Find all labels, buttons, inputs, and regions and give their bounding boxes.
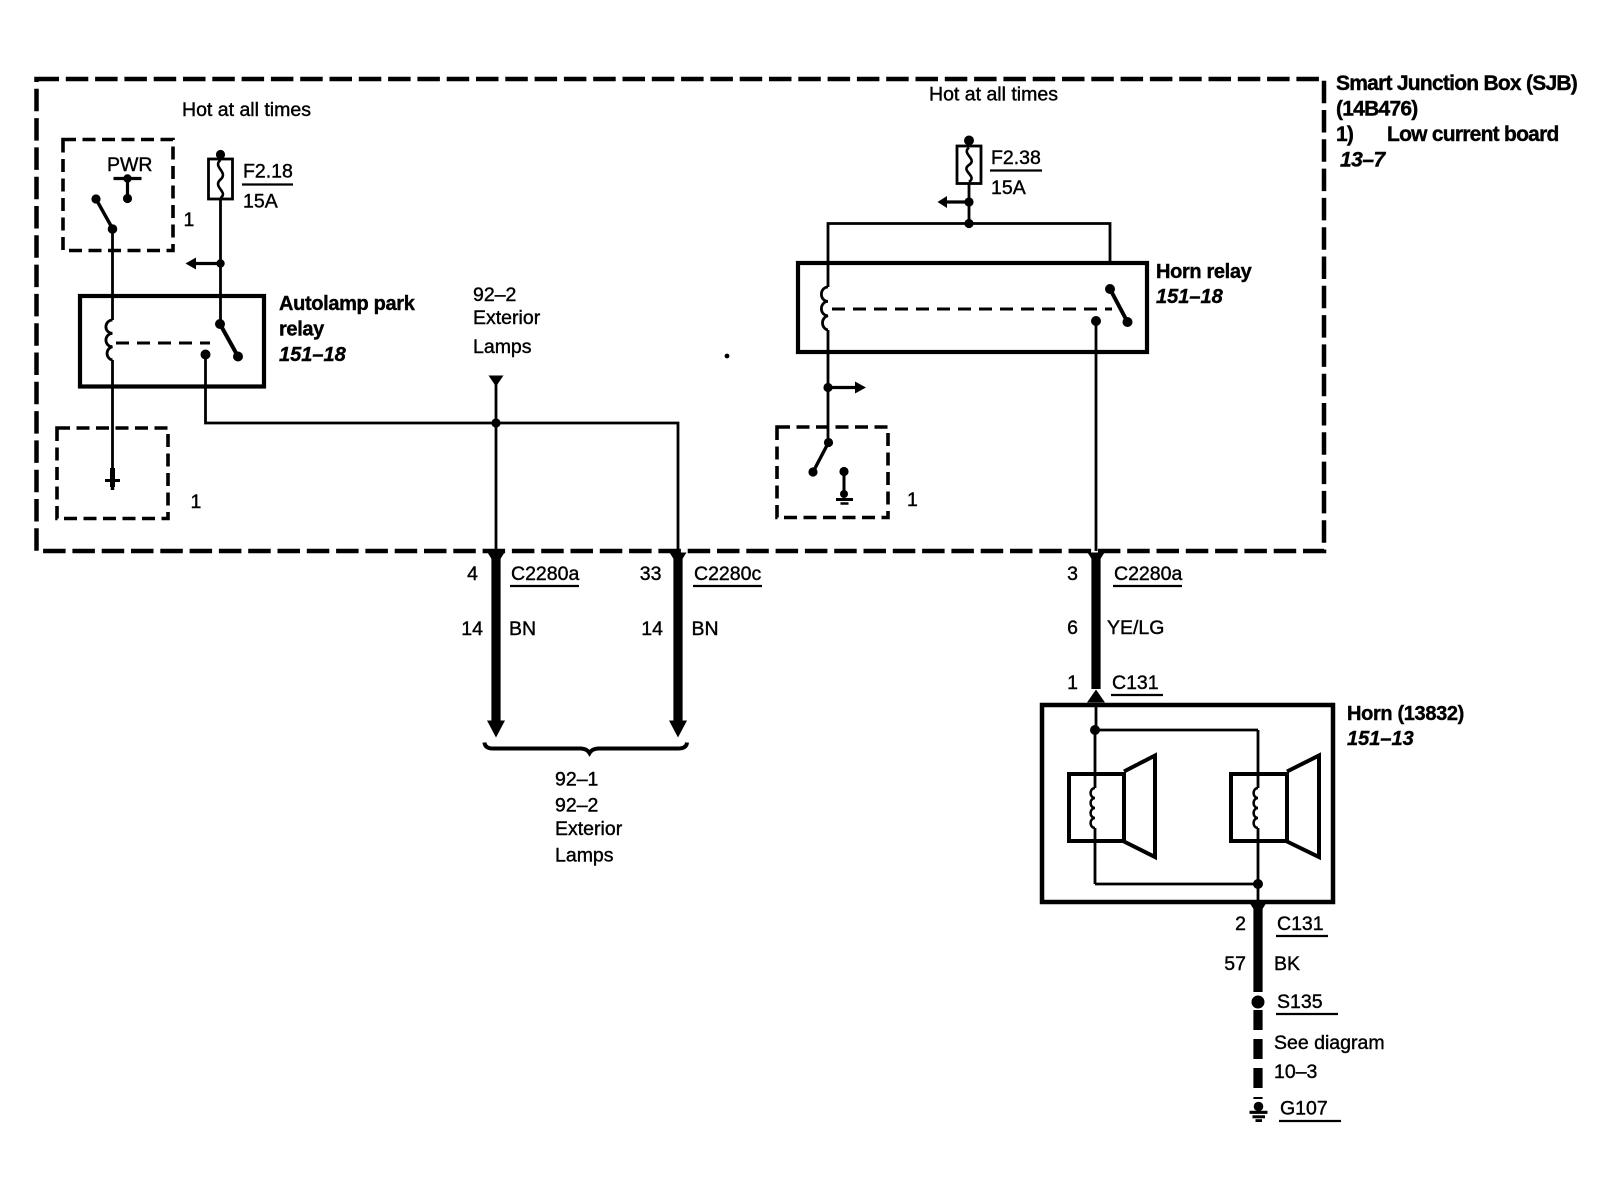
fuse F2.18 — [209, 150, 233, 199]
label wire 6 YE/LG — [1067, 617, 1164, 639]
connector arrow C2280a pin 4 — [488, 553, 505, 567]
label pin 1 C131 — [1067, 672, 1158, 694]
horn relay switch — [1091, 284, 1133, 327]
PWR switch — [91, 194, 117, 233]
svg-text:Autolamp park: Autolamp park — [279, 293, 416, 315]
label 92-2 Exterior Lamps (upper) — [473, 284, 541, 358]
svg-text:92–2: 92–2 — [473, 284, 516, 306]
wire fuse F2.18 to relay switch — [219, 199, 222, 324]
svg-text:BN: BN — [692, 618, 719, 640]
label pin 4 C2280a — [467, 563, 579, 585]
svg-text:PWR: PWR — [107, 154, 153, 176]
relay: Autolamp park relay box — [80, 296, 264, 387]
svg-text:1: 1 — [1067, 672, 1078, 694]
svg-text:2: 2 — [1235, 913, 1246, 935]
svg-text:See diagram: See diagram — [1274, 1032, 1385, 1054]
svg-text:15A: 15A — [991, 177, 1026, 199]
svg-text:151–18: 151–18 — [279, 344, 347, 366]
svg-text:1: 1 — [907, 489, 918, 511]
svg-text:92–1: 92–1 — [555, 769, 598, 791]
brace under BN wires — [485, 743, 688, 754]
wire horn return out of box — [1257, 884, 1260, 903]
svg-text:13–7: 13–7 — [1340, 149, 1387, 172]
svg-text:Low current board: Low current board — [1387, 123, 1559, 146]
relay: Horn relay box — [798, 263, 1147, 352]
label wire gauge 14 BN (right) — [641, 618, 718, 640]
svg-text:Hot at all times: Hot at all times — [182, 99, 311, 121]
arrow end of left BN wire — [487, 721, 505, 738]
svg-text:F2.38: F2.38 — [991, 147, 1041, 169]
coil left horn — [1091, 788, 1095, 828]
coil right horn — [1254, 788, 1258, 828]
horn relay coil — [821, 287, 828, 330]
svg-text:57: 57 — [1224, 953, 1246, 975]
svg-text:Lamps: Lamps — [555, 845, 614, 867]
label pin 3 C2280a — [1067, 563, 1182, 585]
connector arrow C131 pin 2 — [1250, 904, 1266, 917]
wire PWR switch to relay coil — [111, 229, 114, 320]
arrow from exterior lamps label into wire — [489, 376, 504, 387]
wire fuse F2.38 to bus — [968, 184, 971, 224]
wire left horn to bottom link — [1094, 828, 1097, 884]
underline C2280c — [693, 585, 762, 587]
svg-text:Horn (13832): Horn (13832) — [1347, 703, 1464, 725]
label wire 57 BK — [1224, 953, 1300, 975]
ground symbol in horn switch box — [836, 467, 853, 504]
svg-text:Lamps: Lamps — [473, 336, 532, 358]
wire exterior lamps feed — [495, 382, 498, 551]
label F2.18 / 15A — [243, 161, 293, 213]
connector dashed box horn switch — [777, 427, 888, 518]
connector dashed box lower left — [57, 428, 168, 519]
autolamp relay switch — [201, 319, 244, 362]
svg-text:Exterior: Exterior — [473, 307, 541, 329]
svg-text:C2280a: C2280a — [511, 563, 579, 585]
underline C2280a — [510, 585, 579, 587]
SJB title text block — [1336, 72, 1577, 172]
svg-text:G107: G107 — [1280, 1098, 1328, 1120]
arrow end of right BN wire — [669, 721, 687, 738]
underline S135 — [1276, 1013, 1338, 1015]
node horn feed junction — [1090, 725, 1100, 735]
wire coil to lower box terminal — [111, 360, 114, 470]
label Autolamp park relay 151-18 — [279, 293, 416, 366]
svg-text:Exterior: Exterior — [555, 818, 623, 840]
label F2.38 / 15A — [991, 147, 1041, 199]
wire relay output down and across to exterior lamps feed — [206, 355, 679, 552]
svg-text:3: 3 — [1067, 563, 1078, 585]
underline C131 (bottom) — [1276, 935, 1328, 937]
svg-text:151–18: 151–18 — [1156, 286, 1224, 308]
svg-text:92–2: 92–2 — [555, 795, 598, 817]
svg-text:15A: 15A — [243, 191, 278, 213]
svg-text:Hot at all times: Hot at all times — [929, 84, 1058, 106]
label 92-1 92-2 Exterior Lamps (lower) — [555, 769, 623, 867]
arrow into horn connector C131 — [1087, 690, 1105, 703]
svg-text:10–3: 10–3 — [1274, 1061, 1317, 1083]
svg-text:C2280a: C2280a — [1114, 563, 1182, 585]
autolamp relay dashed actuating link — [116, 342, 210, 345]
wire thick BN conductor (left) — [491, 553, 500, 722]
wire dashed BK continuation — [1253, 1010, 1262, 1099]
svg-text:BN: BN — [509, 618, 536, 640]
svg-text:1: 1 — [191, 491, 202, 513]
wire right horn to bottom link — [1257, 828, 1260, 884]
svg-text:C2280c: C2280c — [694, 563, 761, 585]
label pin 33 C2280c — [640, 563, 762, 585]
autolamp relay coil — [106, 320, 113, 360]
underline F2.38 — [990, 169, 1042, 171]
arrow tap right on horn switch feed — [823, 382, 866, 394]
splice S135 — [1252, 996, 1265, 1009]
svg-text:S135: S135 — [1277, 991, 1323, 1013]
wire horn bottom link — [1095, 883, 1258, 886]
svg-text:4: 4 — [467, 563, 478, 585]
horn button switch — [808, 438, 833, 477]
underline G107 — [1279, 1120, 1341, 1122]
svg-text:F2.18: F2.18 — [243, 161, 293, 183]
node horn return junction — [1253, 879, 1263, 889]
svg-text:BK: BK — [1274, 953, 1300, 975]
label pin 2 C131 — [1235, 913, 1323, 935]
Smart Junction Box SJB dashed enclosure — [37, 79, 1325, 551]
wire horn top link — [1095, 729, 1258, 732]
wire into horn box — [1095, 705, 1098, 730]
underline C131 — [1111, 694, 1163, 696]
horn relay dashed actuating link — [832, 308, 1112, 311]
arrow tap left of fuse wire — [186, 258, 225, 270]
svg-text:14: 14 — [461, 618, 483, 640]
svg-text:(14B476): (14B476) — [1336, 98, 1418, 121]
wire bus above horn relay — [828, 224, 1110, 264]
svg-text:151–13: 151–13 — [1347, 728, 1414, 750]
svg-text:C131: C131 — [1112, 672, 1159, 694]
wire right horn drop — [1257, 730, 1260, 788]
wire thick BK conductor — [1253, 904, 1262, 992]
connector arrow C2280c pin 33 — [670, 553, 687, 567]
connector PWR dashed box — [63, 140, 173, 251]
label See diagram 10-3 — [1274, 1032, 1385, 1083]
svg-text:Horn relay: Horn relay — [1156, 261, 1253, 283]
underline F2.18 — [242, 183, 293, 185]
fuse F2.38 — [957, 136, 981, 184]
svg-text:6: 6 — [1067, 617, 1078, 639]
Horn component box — [1042, 705, 1333, 902]
svg-text:C131: C131 — [1277, 913, 1324, 935]
svg-text:relay: relay — [279, 319, 325, 341]
label wire gauge 14 BN (left) — [461, 618, 536, 640]
label Horn relay 151-18 — [1156, 261, 1253, 308]
label Horn (13832) 151-13 — [1347, 703, 1464, 750]
ground G107 — [1250, 1102, 1268, 1121]
svg-text:YE/LG: YE/LG — [1107, 617, 1164, 639]
wire thick BN conductor (right) — [673, 553, 682, 722]
speaker symbol right horn — [1231, 756, 1319, 858]
svg-text:1: 1 — [184, 209, 195, 231]
wire coil through relay bottom — [827, 263, 830, 443]
wire left horn drop — [1094, 730, 1097, 788]
node bus junction — [964, 219, 973, 228]
svg-text:33: 33 — [640, 563, 662, 585]
node junction on lamps wire — [491, 418, 500, 427]
arrow tap left of F2.38 wire — [938, 196, 974, 208]
wire thick YE/LG conductor — [1091, 553, 1100, 689]
speck artifact — [725, 354, 730, 359]
svg-text:1): 1) — [1336, 123, 1353, 146]
svg-text:Smart Junction Box (SJB): Smart Junction Box (SJB) — [1336, 72, 1577, 95]
PWR power terminal symbol — [114, 174, 142, 203]
terminal pin symbol in lower left box — [105, 468, 120, 490]
speaker symbol left horn — [1069, 756, 1155, 858]
svg-text:14: 14 — [641, 618, 663, 640]
underline C2280a (right) — [1113, 585, 1182, 587]
wire horn relay output to C2280a pin 3 — [1095, 321, 1098, 551]
connector arrow C2280a pin 3 — [1088, 553, 1105, 567]
